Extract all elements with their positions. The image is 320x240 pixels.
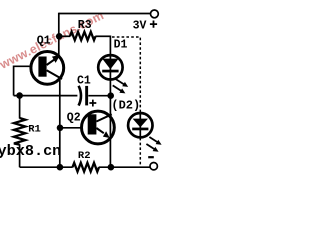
LED D1 light arrow 1: [115, 79, 124, 85]
transistor Q2 base bar: [88, 114, 97, 134]
transistor Q2 emitter line: [96, 128, 103, 133]
wire: bottom rail left: [20, 166, 73, 168]
svg-text:R3: R3: [78, 19, 92, 32]
wire: Q2 base horizontal: [60, 127, 82, 129]
LED D1 circle: [98, 55, 122, 79]
terminal: battery positive: [151, 10, 159, 18]
junction node: C1 / D1 cathode / Q2 collector: [107, 92, 114, 99]
transistor Q2 circle: [82, 111, 115, 144]
resistor R2: [73, 163, 100, 172]
transistor Q1 collector line: [47, 70, 62, 79]
LED D2 light arrow 1: [149, 137, 157, 142]
wire: Q1 emitter riser: [58, 13, 60, 56]
wire: left rail lower (R1 to bottom rail): [19, 144, 21, 167]
LED D2 light arrow 2: [146, 144, 154, 149]
wire: top rail to battery +: [59, 13, 151, 15]
junction node: collector line / bottom rail: [57, 164, 64, 171]
resistor R1: [14, 118, 25, 145]
junction node: Q1 emitter / R3: [56, 33, 63, 40]
svg-text:ybx8.cn: ybx8.cn: [0, 142, 61, 160]
wire: C1 left lead from R1 node: [14, 95, 78, 97]
capacitor C1 curved plate: [79, 86, 81, 106]
wire: Q1 collector drop to bottom rail: [59, 80, 61, 167]
LED D2 circle: [128, 113, 152, 137]
transistor Q1 base bar: [38, 57, 46, 77]
svg-text:Q2: Q2: [67, 112, 81, 125]
transistor Q1 emitter line: [47, 59, 56, 65]
dashed wire: optional branch top: [112, 36, 140, 38]
terminal: battery negative: [150, 163, 157, 170]
LED D2 triangle: [133, 119, 148, 128]
junction node: Q1 collector / Q2 base: [57, 125, 64, 132]
svg-text:D1: D1: [114, 38, 128, 51]
wire: left rail upper (node to R1): [19, 96, 21, 119]
LED D1 triangle: [102, 59, 118, 70]
transistor Q2 collector line: [96, 114, 111, 121]
svg-text:(D2): (D2): [111, 99, 140, 113]
wire: Q1 base horizontal: [14, 65, 30, 67]
capacitor C1 plus sign: [89, 100, 96, 107]
svg-text:C1: C1: [77, 74, 91, 87]
wire: C1 right lead: [88, 95, 110, 97]
resistor R3: [70, 32, 96, 40]
wire: R3 right lead: [95, 35, 110, 37]
junction node: Q1 base / R1 / C1: [16, 92, 23, 99]
LED D2 inner lead: [139, 113, 141, 138]
transistor Q1 emitter arrowhead: [52, 55, 60, 63]
svg-text:R1: R1: [28, 123, 41, 135]
dashed wire: optional branch right upper: [139, 38, 141, 113]
label: minus sign at negative terminal: [148, 156, 154, 158]
wire: bottom rail right to battery -: [99, 166, 150, 168]
transistor Q1 circle: [31, 52, 64, 85]
wire: R3 left lead: [59, 35, 70, 37]
svg-text:3V: 3V: [133, 19, 147, 32]
wire: Q1 base drop: [13, 66, 15, 96]
LED D2 cathode bar: [132, 128, 148, 131]
LED D1 light arrow 2: [113, 85, 122, 91]
dashed wire: optional branch right lower: [139, 138, 141, 166]
junction node: Q2 emitter / bottom rail: [108, 164, 115, 171]
LED D1 cathode bar: [102, 70, 118, 73]
svg-text:Q1: Q1: [37, 34, 51, 47]
transistor Q2 emitter arrowhead: [103, 131, 110, 138]
watermark www.elecfans.com: [0, 8, 106, 72]
svg-text:R2: R2: [78, 150, 91, 162]
label: plus sign at 3V terminal: [150, 21, 157, 28]
capacitor C1 straight plate: [85, 86, 88, 106]
wire: main right trunk (R3 to D1 to C1 node to Q2 to bottom rail): [109, 36, 111, 168]
